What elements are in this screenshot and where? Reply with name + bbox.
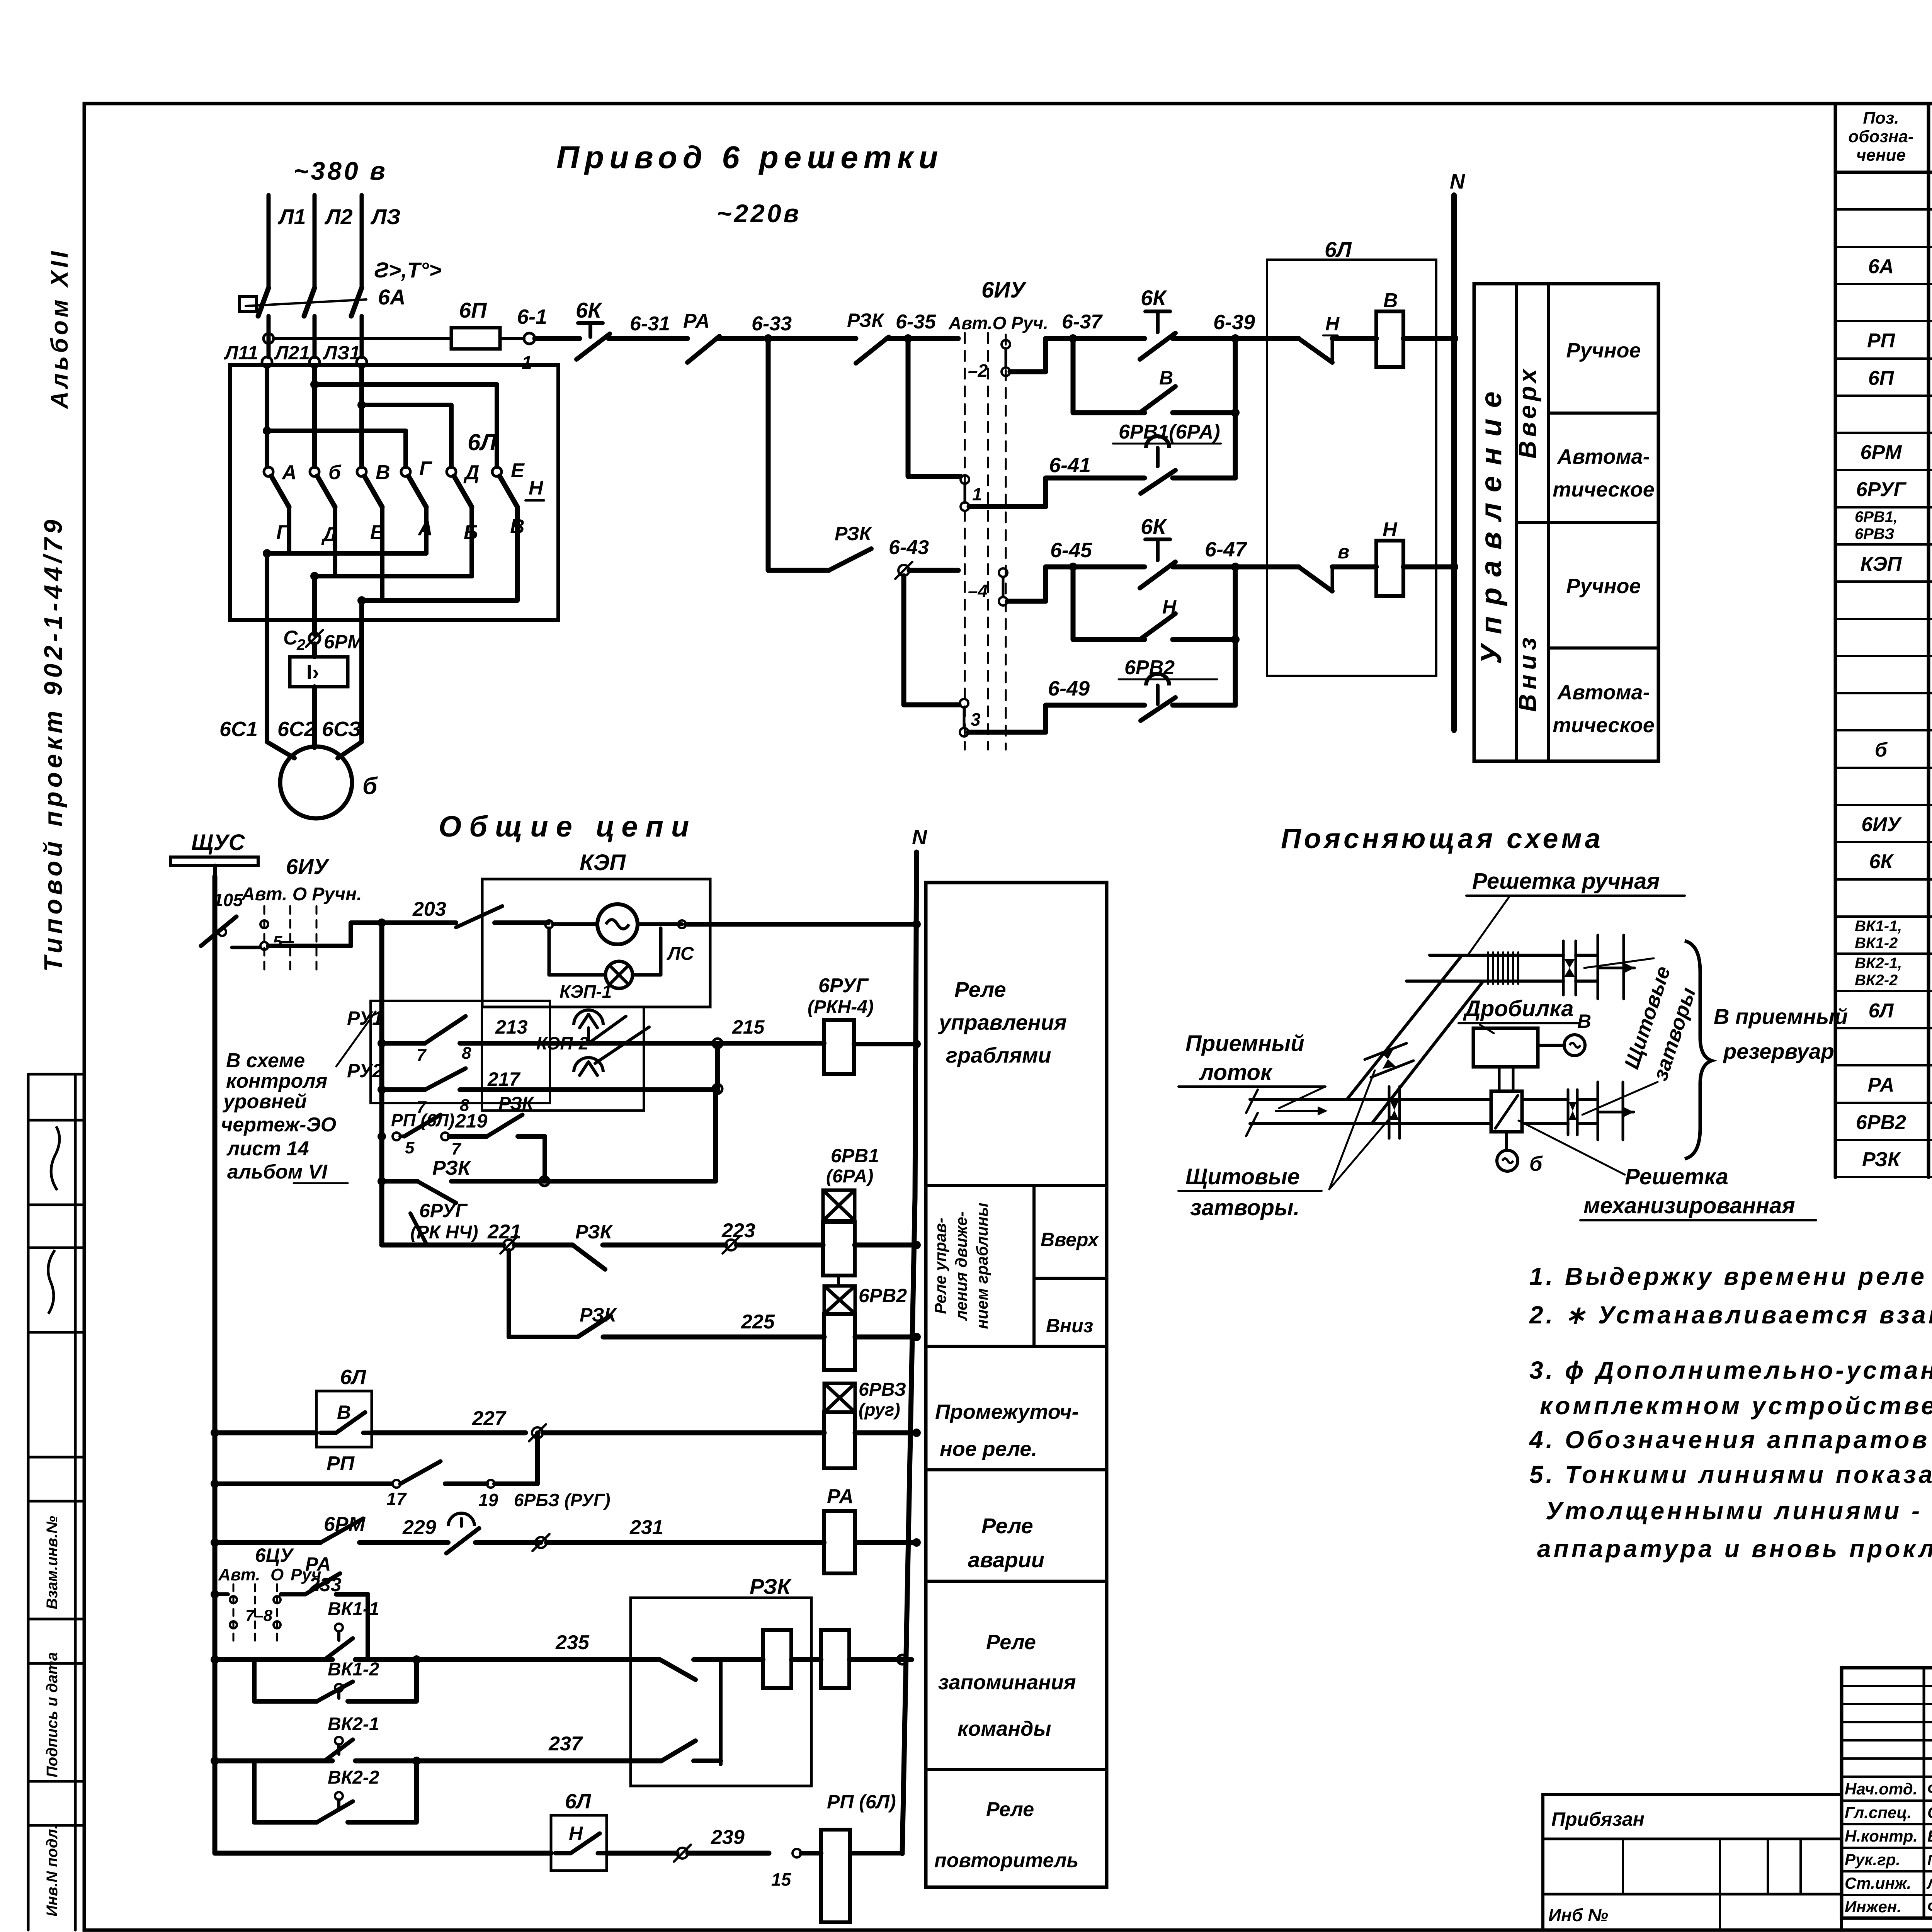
svg-text:В: В (1159, 367, 1173, 389)
node on Л1 with control tap (264, 333, 274, 344)
svg-text:6Л: 6Л (1869, 1000, 1894, 1022)
svg-text:Д: Д (463, 461, 480, 484)
table row line 21 (1835, 952, 1932, 955)
left margin column boxes (27, 1074, 30, 1930)
svg-text:резервуар: резервуар (1723, 1039, 1834, 1063)
svg-text:229: 229 (402, 1516, 436, 1539)
svg-text:Привод 6 решетки: Привод 6 решетки (556, 140, 943, 175)
svg-text:РЗК: РЗК (498, 1094, 535, 1114)
table row line 26 (1835, 1139, 1932, 1141)
thin box 6Л around coils (1267, 260, 1436, 676)
table row line 24 (1835, 1064, 1932, 1066)
svg-text:Ƨ>,T°>: Ƨ>,T°> (374, 258, 442, 282)
svg-text:Взам.инв.№: Взам.инв.№ (44, 1516, 61, 1609)
gate on upper channel (1562, 941, 1565, 995)
svg-text:6ИУ: 6ИУ (981, 277, 1027, 303)
svg-text:1. Выдержку времени реле 6РВ1,: 1. Выдержку времени реле 6РВ1, 6РВ2, 6РВ… (1529, 1262, 1932, 1290)
svg-text:Н: Н (529, 477, 544, 499)
svg-text:тическое: тическое (1553, 478, 1655, 501)
svg-text:тическое: тическое (1553, 714, 1655, 737)
contactor pole Б (310, 467, 319, 476)
parts table outer (1834, 104, 1837, 1177)
svg-text:Нач.отд.: Нач.отд. (1845, 1780, 1917, 1798)
pipe right of grid box (1522, 1098, 1568, 1101)
exit channel right lower (1577, 1098, 1598, 1101)
svg-text:КЭП: КЭП (1861, 553, 1902, 575)
svg-text:Ручное: Ручное (1566, 339, 1641, 362)
motor 6 (280, 747, 352, 818)
svg-text:19: 19 (478, 1490, 498, 1510)
wires into 6Л terminals (265, 367, 269, 467)
terminal Л11 (262, 357, 272, 367)
svg-text:Управление: Управление (1475, 381, 1508, 664)
table row line 10 (1835, 543, 1932, 546)
svg-text:РУ2: РУ2 (347, 1060, 383, 1082)
signature row Инжен. (1842, 1894, 1932, 1896)
table row line 14 (1835, 692, 1932, 694)
contactor block 6Л box (230, 365, 558, 620)
terminal Л21 (310, 357, 320, 367)
svg-text:Л21: Л21 (274, 342, 310, 364)
table row line 19 (1835, 878, 1932, 881)
svg-text:–2: –2 (968, 361, 988, 381)
svg-text:Реле управ-: Реле управ- (931, 1218, 949, 1314)
svg-text:105: 105 (213, 890, 243, 910)
svg-text:Инб №: Инб № (1548, 1905, 1608, 1925)
crusher box (1473, 1028, 1538, 1067)
svg-text:альбом VI: альбом VI (227, 1161, 328, 1183)
svg-text:ВК1-1,: ВК1-1, (1855, 918, 1902, 935)
contact 1 of 6ИУ (961, 475, 969, 484)
svg-text:граблями: граблями (946, 1043, 1051, 1067)
svg-text:б: б (328, 461, 342, 484)
svg-text:6А: 6А (1868, 255, 1894, 278)
svg-text:Пейсахович: Пейсахович (1927, 1852, 1932, 1869)
svg-text:6С2: 6С2 (277, 718, 316, 741)
svg-text:6П: 6П (459, 298, 487, 322)
svg-text:~380 в: ~380 в (294, 156, 388, 185)
wire bus to node 203 (232, 946, 260, 949)
svg-text:Приемный: Приемный (1185, 1031, 1304, 1056)
svg-text:Н: Н (1383, 519, 1398, 541)
svg-text:чертеж-ЭО: чертеж-ЭО (221, 1114, 336, 1136)
svg-text:6-35: 6-35 (896, 311, 936, 333)
svg-text:Реле: Реле (986, 1798, 1034, 1821)
svg-text:ВК2-2: ВК2-2 (328, 1767, 379, 1788)
svg-text:Г: Г (419, 457, 432, 480)
channel exit right upper (1576, 954, 1598, 957)
svg-text:РА: РА (827, 1485, 854, 1508)
terminal Л31 (357, 357, 367, 367)
svg-text:ЩУС: ЩУС (191, 830, 245, 855)
svg-text:225: 225 (741, 1311, 775, 1333)
contactor pole Е (492, 467, 502, 476)
row 6-41 left part with step (969, 478, 1145, 507)
svg-text:Инжен.: Инжен. (1845, 1898, 1901, 1916)
wire segments below breaker (267, 316, 271, 357)
svg-text:чение: чение (1856, 146, 1906, 165)
node column x988 (378, 918, 386, 927)
svg-text:Л2: Л2 (324, 204, 353, 229)
table row line 5 (1835, 357, 1932, 360)
svg-text:В приемный: В приемный (1714, 1004, 1848, 1029)
svg-text:5. Тонкими линиями показаны: 5. Тонкими линиями показаны аппараты и с… (1529, 1461, 1932, 1488)
svg-text:Авт.О Руч.: Авт.О Руч. (948, 313, 1048, 333)
svg-text:Авт. О Ручн.: Авт. О Ручн. (241, 884, 362, 905)
svg-text:б: б (362, 773, 378, 799)
bottom link phase B (333, 507, 337, 576)
signature row Рук.гр. (1842, 1847, 1932, 1849)
contactor pole Д (447, 467, 456, 476)
svg-text:КЭП-1: КЭП-1 (560, 981, 612, 1002)
svg-text:5: 5 (405, 1138, 415, 1157)
svg-text:А: А (281, 461, 297, 484)
svg-text:Типовой проект 902-1-44/79: Типовой проект 902-1-44/79 (39, 516, 67, 972)
svg-text:ЛЗ1: ЛЗ1 (323, 342, 360, 364)
svg-text:4. Обозначения аппаратов в с: 4. Обозначения аппаратов в скобках даны … (1529, 1426, 1932, 1454)
svg-text:Общие цепи: Общие цепи (439, 810, 697, 843)
flow arrow (1276, 1110, 1321, 1112)
svg-text:В: В (1577, 1010, 1591, 1032)
svg-text:6П: 6П (1868, 367, 1895, 389)
svg-text:6К: 6К (1141, 514, 1167, 539)
svg-text:213: 213 (495, 1016, 528, 1038)
svg-text:Вверх: Вверх (1041, 1229, 1099, 1250)
phase line Л1 (267, 195, 271, 287)
svg-text:6ИУ: 6ИУ (1861, 813, 1902, 836)
branch from 6-45 down (1071, 567, 1076, 639)
РЗК contact row2 (766, 338, 771, 570)
svg-text:ВК1-2: ВК1-2 (328, 1659, 379, 1680)
svg-text:2: 2 (296, 636, 305, 653)
svg-text:Промежуточ-: Промежуточ- (935, 1400, 1079, 1423)
svg-text:уровней: уровней (222, 1090, 307, 1113)
svg-text:17: 17 (386, 1489, 407, 1509)
svg-text:6-37: 6-37 (1062, 311, 1103, 333)
table row line 9 (1835, 506, 1932, 509)
svg-text:6-43: 6-43 (889, 536, 929, 559)
svg-text:Вверх: Вверх (1514, 365, 1541, 459)
wire to РА (609, 336, 687, 341)
svg-text:Реле: Реле (954, 977, 1006, 1002)
svg-text:6-31: 6-31 (630, 313, 670, 335)
svg-text:ления движе-: ления движе- (952, 1211, 970, 1321)
coil В (1376, 311, 1403, 367)
coil Н (1376, 541, 1403, 596)
svg-text:(руг): (руг) (859, 1400, 900, 1420)
table row line 18 (1835, 841, 1932, 843)
svg-text:6РВ2: 6РВ2 (859, 1285, 907, 1306)
wire fuse to 6-1 (500, 337, 524, 340)
table row line 23 (1835, 1027, 1932, 1029)
svg-text:6РМ: 6РМ (324, 631, 364, 653)
svg-text:6А: 6А (378, 285, 406, 309)
memory coils (763, 1630, 791, 1688)
svg-text:15: 15 (771, 1869, 792, 1889)
svg-text:Авт.: Авт. (218, 1565, 260, 1584)
gate right (1567, 1090, 1570, 1135)
svg-text:6РМ: 6РМ (1861, 441, 1903, 464)
svg-text:Автома-: Автома- (1556, 681, 1650, 704)
svg-text:РЗК: РЗК (750, 1574, 792, 1599)
svg-text:7: 7 (451, 1139, 462, 1158)
svg-text:6-41: 6-41 (1049, 454, 1091, 477)
manual grid hatch (1487, 952, 1489, 984)
table row line 20 (1835, 915, 1932, 918)
control mode table box (1474, 284, 1658, 761)
svg-text:217: 217 (487, 1068, 521, 1090)
svg-text:6РУГ: 6РУГ (818, 975, 869, 997)
svg-text:В: В (337, 1401, 351, 1423)
svg-text:ЛС: ЛС (667, 944, 694, 964)
svg-text:6К: 6К (1869, 850, 1894, 873)
svg-text:РЗК: РЗК (847, 310, 885, 331)
svg-text:РП: РП (327, 1452, 355, 1475)
table row line 4 (1835, 320, 1932, 322)
svg-text:лоток: лоток (1199, 1060, 1273, 1085)
signature row Гл.спец. (1842, 1799, 1932, 1802)
svg-text:Н: Н (1325, 313, 1340, 335)
svg-text:6РВ1: 6РВ1 (831, 1145, 879, 1167)
svg-text:ЛЗ: ЛЗ (370, 204, 400, 229)
table row line 11 (1835, 580, 1932, 583)
svg-text:6К: 6К (1141, 286, 1167, 310)
svg-text:Поз.: Поз. (1863, 109, 1899, 128)
svg-text:РЗК: РЗК (1862, 1148, 1901, 1171)
svg-text:Поясняющая схема: Поясняющая схема (1281, 823, 1604, 854)
svg-text:6-39: 6-39 (1213, 311, 1255, 334)
motor feeders (265, 553, 269, 724)
title block signature grid (1842, 1668, 1932, 1918)
curly brace (1685, 941, 1712, 1159)
svg-text:Реле: Реле (981, 1514, 1033, 1538)
svg-text:управления: управления (938, 1010, 1067, 1034)
table row line 7 (1835, 432, 1932, 434)
control wire to fuse (274, 337, 451, 340)
svg-text:С: С (283, 627, 298, 649)
svg-text:затворы.: затворы. (1190, 1195, 1300, 1220)
svg-text:РЗК: РЗК (575, 1221, 613, 1243)
svg-text:Подпись и дата: Подпись и дата (44, 1652, 61, 1777)
device КЭП box (482, 879, 710, 1007)
crusher motor В (1538, 1044, 1564, 1047)
svg-text:6Л: 6Л (565, 1790, 592, 1813)
table row line 6 (1835, 395, 1932, 397)
svg-text:РУ1: РУ1 (347, 1007, 383, 1029)
svg-text:ВК2-2: ВК2-2 (1855, 972, 1898, 989)
svg-text:запоминания: запоминания (938, 1671, 1076, 1694)
branch from 6-37 down (1071, 338, 1076, 413)
svg-text:1: 1 (522, 353, 532, 373)
motor leads (267, 724, 294, 758)
svg-text:Альбом XII: Альбом XII (46, 248, 73, 409)
svg-text:Реле: Реле (986, 1631, 1036, 1654)
relay БРМ box I> (312, 644, 317, 657)
svg-text:комплектном устройстве (нку).: комплектном устройстве (нку). (1540, 1392, 1932, 1420)
svg-text:6РВЗ: 6РВЗ (859, 1379, 906, 1400)
svg-text:Вниз: Вниз (1514, 633, 1541, 712)
svg-text:6РУГ: 6РУГ (419, 1200, 468, 1221)
link crusher to grid box (1498, 1067, 1501, 1091)
contact 2 of 6ИУ (1002, 340, 1010, 349)
svg-text:Ручное: Ручное (1566, 575, 1641, 598)
svg-text:ное реле.: ное реле. (940, 1437, 1037, 1461)
lower pipe (1250, 1098, 1491, 1101)
svg-text:N: N (1450, 170, 1465, 193)
svg-text:6К: 6К (576, 298, 602, 322)
svg-text:Л11: Л11 (224, 342, 258, 364)
table row line 22 (1835, 990, 1932, 992)
thin box РУ1/РУ2 (371, 1001, 550, 1103)
cross link Д to Л3 (357, 401, 366, 409)
row 219 РП(6Л) РЗК (378, 1132, 386, 1141)
left bus vertical (213, 876, 218, 1853)
wire 6-43 down to contact 3 (904, 576, 959, 705)
diagonal channel (1347, 957, 1461, 1099)
svg-text:Сбозная: Сбозная (1927, 1803, 1932, 1821)
signature row Нач.отд. (1842, 1776, 1932, 1778)
svg-text:6-49: 6-49 (1048, 677, 1090, 700)
table row line 12 (1835, 618, 1932, 620)
svg-text:аппаратура и вновь проклады: аппаратура и вновь прокладываемые связи. (1537, 1535, 1932, 1563)
svg-text:Гл.спец.: Гл.спец. (1845, 1803, 1912, 1821)
svg-text:Ст.инж.: Ст.инж. (1845, 1874, 1911, 1892)
svg-text:(РКН-4): (РКН-4) (808, 997, 874, 1017)
bottom link phase A (287, 507, 291, 553)
svg-text:Н: Н (569, 1823, 583, 1844)
table row line 16 (1835, 767, 1932, 769)
svg-text:8: 8 (462, 1044, 471, 1063)
svg-text:РЗК: РЗК (432, 1157, 471, 1179)
contactor pole Г (401, 467, 410, 476)
svg-text:РА: РА (305, 1553, 331, 1575)
wire КЭП to bus (686, 922, 917, 927)
svg-text:6Л: 6Л (1325, 237, 1352, 262)
svg-text:Вниз: Вниз (1046, 1315, 1093, 1337)
wire 6-35 down to contact 1 (908, 338, 961, 476)
svg-text:6Л: 6Л (468, 429, 497, 455)
svg-text:РА: РА (683, 310, 710, 332)
svg-text:Автома-: Автома- (1556, 445, 1650, 468)
table row line 3 (1835, 283, 1932, 285)
svg-text:аварии: аварии (968, 1548, 1044, 1572)
svg-text:239: 239 (711, 1826, 745, 1849)
table row line 8 (1835, 469, 1932, 471)
svg-text:Е: Е (511, 459, 525, 482)
row 229 (211, 1538, 219, 1547)
svg-text:I›: I› (306, 661, 319, 684)
svg-text:в: в (1338, 541, 1349, 563)
svg-text:команды: команды (957, 1717, 1051, 1740)
svg-text:обозна-: обозна- (1848, 127, 1913, 146)
bottom link phase C (380, 507, 384, 600)
svg-text:Решетка ручная: Решетка ручная (1472, 869, 1660, 894)
svg-text:221: 221 (487, 1221, 521, 1243)
svg-text:Инв.N подл.: Инв.N подл. (44, 1825, 61, 1917)
svg-text:203: 203 (412, 898, 446, 920)
row 225 (507, 1250, 511, 1337)
table row line 27 (1835, 1176, 1932, 1178)
AC source symbol (545, 920, 553, 928)
row 217 РУ2 (378, 1085, 386, 1094)
svg-text:6СЗ: 6СЗ (322, 718, 361, 741)
svg-text:6РВ2: 6РВ2 (1856, 1111, 1906, 1134)
svg-text:РА: РА (1868, 1074, 1895, 1096)
svg-text:ВК1-2: ВК1-2 (1855, 935, 1898, 952)
vertical 6-39 column (1233, 338, 1238, 478)
svg-text:В: В (376, 461, 390, 484)
row РП (211, 1480, 219, 1488)
svg-text:РП: РП (1867, 330, 1896, 352)
svg-text:(6РА): (6РА) (826, 1166, 873, 1187)
svg-text:6РВ1,: 6РВ1, (1855, 509, 1898, 526)
margin signature scribbles (48, 1250, 55, 1314)
svg-text:1: 1 (972, 484, 982, 504)
svg-text:РЗК: РЗК (835, 523, 872, 544)
svg-text:нием граблины: нием граблины (973, 1202, 991, 1329)
svg-text:механизированная: механизированная (1583, 1193, 1795, 1218)
table row line 1 (1835, 208, 1932, 211)
svg-text:Щитовые: Щитовые (1185, 1164, 1300, 1189)
svg-text:Решетка: Решетка (1625, 1164, 1728, 1189)
grid motor б (1505, 1132, 1508, 1150)
table row line 13 (1835, 655, 1932, 657)
row 213 РУ1 (378, 1039, 386, 1048)
svg-text:Рук.гр.: Рук.гр. (1845, 1850, 1900, 1869)
breaker 6А (258, 288, 269, 316)
svg-text:6-47: 6-47 (1205, 538, 1248, 561)
table row line 25 (1835, 1102, 1932, 1104)
signature row Н.контр. (1842, 1823, 1932, 1825)
contact 3 of 6ИУ (960, 699, 968, 707)
row РЗК lower (378, 1177, 386, 1185)
svg-text:235: 235 (555, 1631, 590, 1654)
phase line Л2 (313, 195, 317, 287)
table row line 2 (1835, 246, 1932, 248)
svg-text:РП (6Л): РП (6Л) (827, 1791, 896, 1813)
svg-text:6Л: 6Л (340, 1366, 367, 1389)
mechanized grid box (1491, 1091, 1522, 1132)
blade КЭП-2 crossing (595, 1027, 649, 1063)
svg-text:Фролов: Фролов (1927, 1780, 1932, 1798)
contactor pole В (357, 467, 366, 476)
svg-text:7: 7 (417, 1046, 427, 1065)
svg-text:О: О (270, 1565, 284, 1584)
row 221 (382, 1243, 427, 1248)
row 233 switch 6ЦУ (211, 1590, 219, 1599)
wire 6-1 to 6К (535, 336, 580, 341)
svg-text:6С1: 6С1 (219, 718, 258, 741)
svg-text:7–8: 7–8 (245, 1606, 273, 1624)
terminal 6-1 (524, 333, 535, 344)
svg-text:повторитель: повторитель (934, 1849, 1078, 1872)
contact 4 of 6ИУ (999, 568, 1007, 577)
svg-text:6-33: 6-33 (752, 313, 792, 335)
svg-text:Бондарь: Бондарь (1927, 1827, 1932, 1845)
Прибязан box (1543, 1794, 1842, 1930)
phase line Л3 (360, 195, 364, 287)
svg-text:Лозовская: Лозовская (1926, 1876, 1932, 1892)
row 235 (211, 1655, 219, 1664)
svg-text:6РВЗ: 6РВЗ (1855, 526, 1895, 543)
svg-text:Н.контр.: Н.контр. (1845, 1827, 1918, 1845)
svg-text:контроля: контроля (226, 1070, 327, 1092)
svg-text:6ИУ: 6ИУ (286, 854, 330, 879)
svg-text:б: б (1529, 1152, 1543, 1175)
svg-text:6РВ1(6РА): 6РВ1(6РА) (1119, 421, 1220, 443)
svg-text:227: 227 (472, 1407, 507, 1430)
svg-text:б: б (1875, 739, 1888, 761)
